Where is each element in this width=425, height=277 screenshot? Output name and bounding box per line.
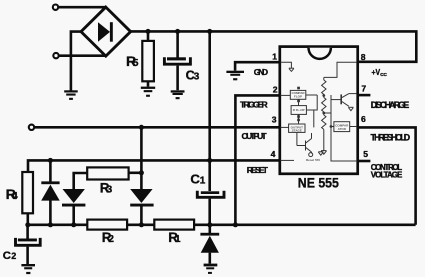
svg-text:FLOP: FLOP [294, 95, 302, 99]
svg-text:5: 5 [363, 149, 368, 159]
svg-text:6: 6 [361, 114, 366, 124]
svg-text:VOLTAGE: VOLTAGE [371, 170, 403, 179]
svg-text:ATOR: ATOR [338, 127, 347, 131]
svg-text:8: 8 [361, 52, 366, 62]
svg-text:3: 3 [107, 184, 113, 195]
svg-text:DISCHARGE: DISCHARGE [371, 100, 410, 110]
svg-text:STAGE: STAGE [292, 129, 302, 133]
svg-text:THRESHOLD: THRESHOLD [371, 133, 411, 143]
svg-text:1: 1 [272, 52, 277, 62]
svg-text:CC: CC [380, 72, 387, 78]
svg-text:1: 1 [200, 176, 206, 187]
svg-text:OUTPUT: OUTPUT [242, 131, 268, 141]
svg-text:RESET: RESET [247, 165, 269, 175]
svg-text:3: 3 [194, 72, 200, 83]
svg-text:5: 5 [133, 57, 139, 69]
svg-text:TRIGGER: TRIGGER [240, 100, 268, 110]
svg-text:R FL-OP: R FL-OP [293, 108, 305, 112]
svg-text:NE 555: NE 555 [298, 175, 339, 191]
svg-text:1: 1 [175, 234, 181, 245]
svg-text:C: C [3, 250, 11, 262]
svg-text:GND: GND [254, 67, 268, 77]
svg-text:7: 7 [361, 84, 366, 94]
svg-text:4: 4 [271, 149, 276, 159]
svg-text:4: 4 [12, 190, 18, 202]
svg-text:Reset 555: Reset 555 [306, 158, 320, 162]
svg-text:2: 2 [108, 234, 114, 245]
svg-text:3: 3 [272, 115, 277, 125]
svg-text:2: 2 [11, 251, 16, 261]
svg-text:2: 2 [273, 85, 278, 95]
